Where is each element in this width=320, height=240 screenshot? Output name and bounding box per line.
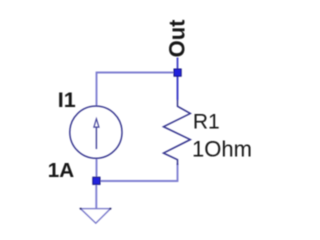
wire: left vertical from current source bottom pin to bottom junction <box>96 159 98 181</box>
ground triangle corner dots <box>80 208 82 210</box>
wire: right vertical stub above Out junction <box>177 58 179 73</box>
bottom junction square <box>93 177 100 184</box>
svg-text:1Ohm: 1Ohm <box>192 137 252 162</box>
wire: left vertical from top rail down to current source top pin <box>96 72 98 106</box>
wire: bottom rail from bottom junction to resistor bottom <box>97 180 178 182</box>
svg-text:1A: 1A <box>48 159 74 182</box>
ground <box>81 209 111 224</box>
svg-text:Out: Out <box>164 19 189 58</box>
node Out junction square <box>174 69 181 76</box>
wire: ground stem below bottom junction <box>95 181 97 209</box>
wire: right vertical from Out junction down to resistor <box>177 73 179 101</box>
resistor R1 <box>164 100 191 165</box>
svg-text:R1: R1 <box>193 110 220 133</box>
wire: right vertical from resistor bottom to bottom rail <box>177 164 179 182</box>
current source I1 <box>70 106 122 158</box>
wire: top rail from current source top corner to Out junction <box>97 72 178 74</box>
svg-text:I1: I1 <box>58 88 76 112</box>
